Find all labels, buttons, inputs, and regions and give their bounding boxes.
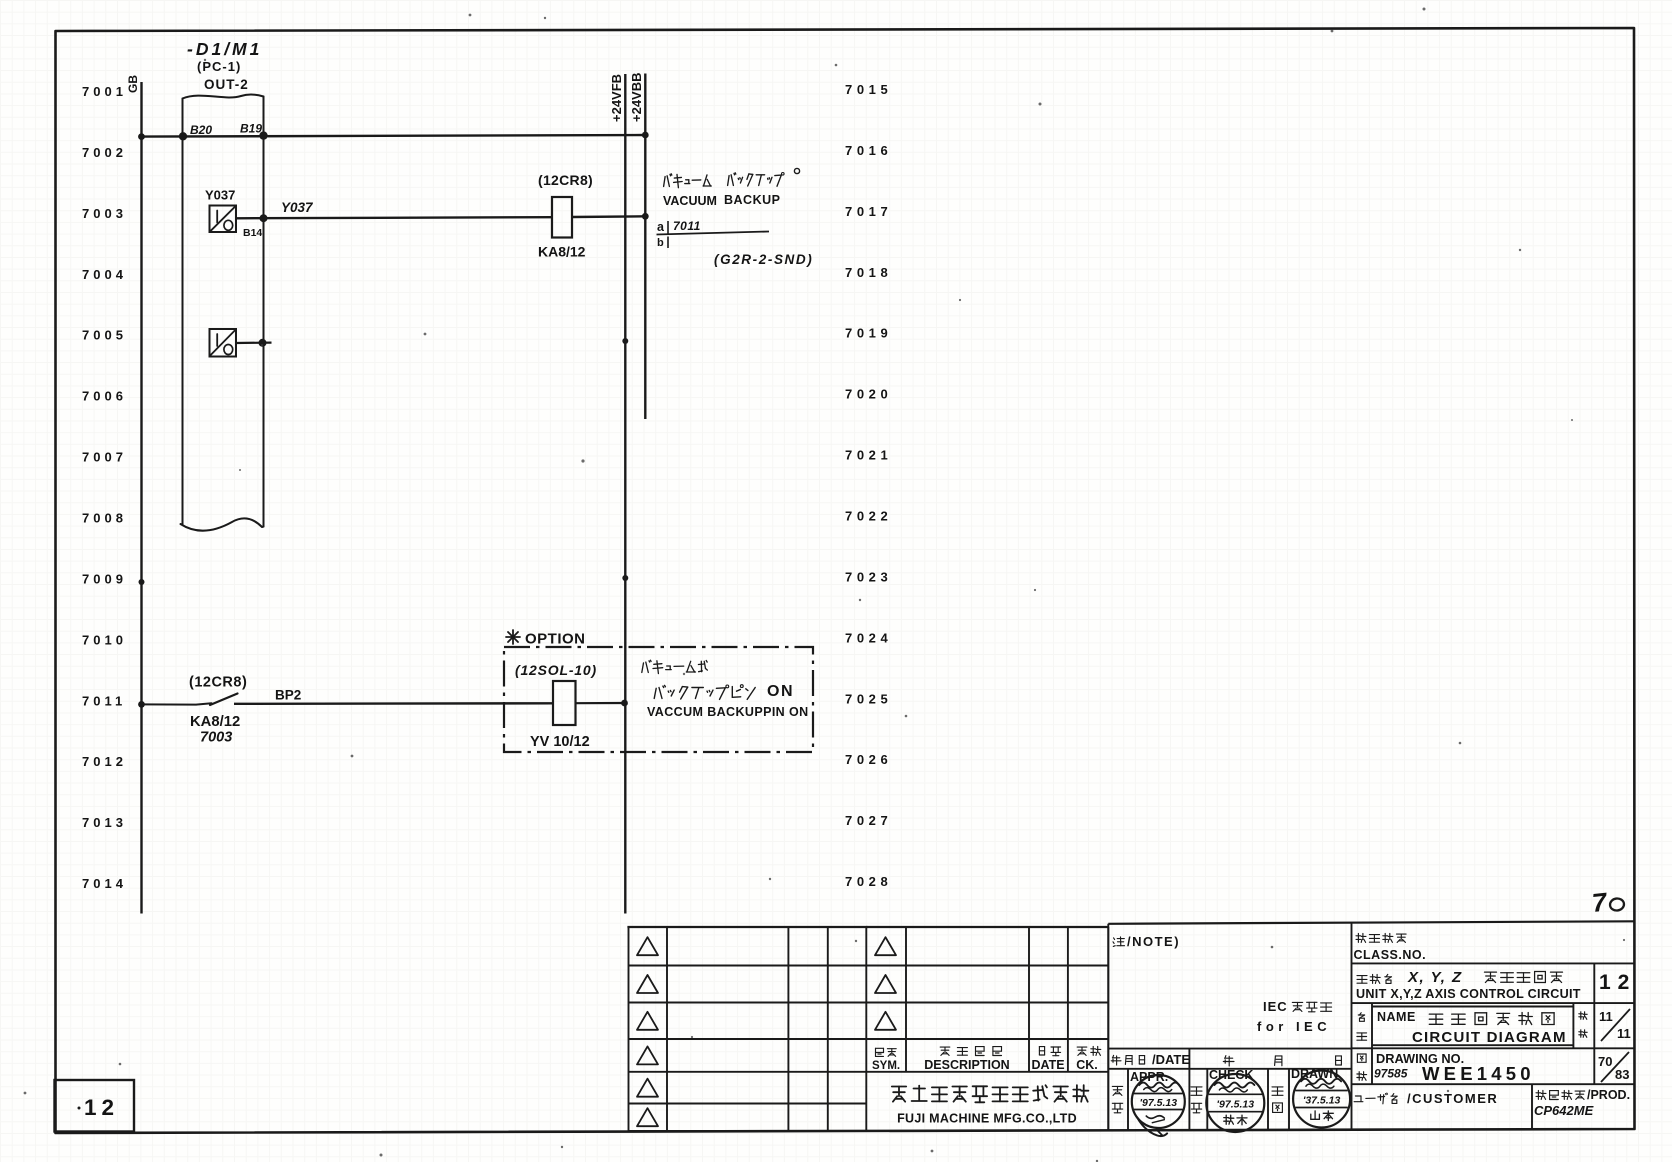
svg-text:7027: 7027: [845, 813, 892, 828]
svg-text:B14: B14: [243, 227, 262, 239]
svg-text:CLASS.NO.: CLASS.NO.: [1354, 948, 1427, 962]
svg-text:CIRCUIT DIAGRAM: CIRCUIT DIAGRAM: [1412, 1029, 1567, 1046]
svg-text:a: a: [657, 220, 665, 234]
label UNIT X Y Z AXIS CONTROL CIRCUIT: [1357, 975, 1367, 977]
wire rung 7003 Y037 to coil: [236, 217, 552, 218]
svg-text:DATE: DATE: [1031, 1058, 1064, 1072]
svg-text:Y037: Y037: [205, 188, 235, 203]
wire rung 7002 (GB to +24VBB): [142, 135, 646, 137]
svg-text:+24VBB: +24VBB: [629, 73, 644, 123]
approval stamp DRAWN Yamamoto 97.5.13: [1293, 1071, 1350, 1128]
annotation VACUUM BACKUP (katakana): [664, 177, 666, 187]
approval stamp APPR 97.5.13: [1132, 1075, 1185, 1128]
svg-text:7020: 7020: [845, 387, 892, 402]
revision header DATE: [1038, 1047, 1040, 1055]
junction on module edge at 7005: [259, 339, 267, 347]
wire coil to +24VBB: [572, 215, 645, 218]
svg-text:11: 11: [1617, 1026, 1631, 1041]
svg-text:'97.5.13: '97.5.13: [1217, 1099, 1255, 1111]
label PROD CP642ME: [1537, 1090, 1539, 1099]
approval row cells: [1127, 1069, 1129, 1130]
svg-text:(12CR8): (12CR8): [189, 675, 247, 691]
svg-text:FUJI MACHINE MFG.CO.,LTD: FUJI MACHINE MFG.CO.,LTD: [897, 1112, 1077, 1126]
svg-text:7017: 7017: [845, 204, 892, 219]
power rail +24VBB: [644, 74, 646, 420]
junction +24VFB at 7011: [621, 700, 628, 707]
revision header DESCRIPTION: [940, 1046, 950, 1048]
junction on GB rail at 7002: [138, 133, 145, 140]
svg-text:7014: 7014: [82, 876, 127, 891]
svg-text:7011: 7011: [673, 219, 701, 233]
sheet number box 12: [55, 1080, 135, 1132]
svg-text:7019: 7019: [845, 326, 892, 341]
svg-text:7023: 7023: [845, 569, 892, 584]
svg-text:VACUUM: VACUUM: [663, 194, 717, 208]
svg-text:7010: 7010: [82, 632, 127, 647]
svg-text:7008: 7008: [82, 511, 127, 526]
svg-text:12: 12: [84, 1095, 119, 1120]
label APPR: [1112, 1085, 1122, 1087]
svg-text:7002: 7002: [82, 145, 127, 160]
wire BP2 rung 7011: [234, 702, 553, 705]
PLC module -D1/M1 (PC-1) OUT-2: [182, 99, 184, 525]
svg-text:OUT-2: OUT-2: [204, 77, 249, 92]
svg-text:7021: 7021: [845, 448, 892, 463]
revision header CK: [1077, 1046, 1087, 1048]
svg-text:7009: 7009: [82, 571, 127, 586]
label OPTION with star: [506, 636, 520, 638]
junction dot GB rail (7009 level): [139, 579, 145, 585]
svg-text:CK.: CK.: [1076, 1058, 1098, 1072]
svg-text:12: 12: [1599, 971, 1636, 994]
svg-text:BP2: BP2: [275, 688, 301, 703]
svg-text:7016: 7016: [845, 143, 892, 158]
svg-text:7024: 7024: [845, 630, 892, 645]
svg-text:11: 11: [1599, 1009, 1613, 1024]
svg-text:KA8/12: KA8/12: [538, 244, 586, 260]
svg-text:DESCRIPTION: DESCRIPTION: [924, 1058, 1009, 1072]
svg-text:7012: 7012: [82, 754, 127, 769]
svg-text:7028: 7028: [845, 874, 892, 889]
wire rung 7011 from GB rail: [142, 703, 212, 704]
wire solenoid to +24VFB rail: [576, 702, 625, 704]
solenoid valve YV10/12 (12SOL-10): [553, 681, 576, 725]
svg-text:BACKUP: BACKUP: [724, 193, 780, 207]
relay coil KA8/12 (12CR8): [552, 197, 572, 238]
svg-text:/PROD.: /PROD.: [1587, 1088, 1630, 1102]
svg-text:7001: 7001: [82, 84, 127, 99]
svg-text:7022: 7022: [845, 509, 892, 524]
svg-text:OPTION: OPTION: [525, 631, 586, 648]
label NAME CIRCUIT DIAGRAM: [1360, 1013, 1362, 1015]
svg-text:7003: 7003: [82, 206, 127, 221]
page mini header: [1580, 1012, 1582, 1020]
annotation vacuum backup pin ON (katakana): [642, 663, 644, 673]
wire stub rung 7005: [236, 342, 272, 345]
svg-text:SYM.: SYM.: [872, 1060, 900, 1072]
junction dot +24VFB (7023 level): [622, 575, 628, 581]
power rail +24VFB: [624, 74, 626, 914]
svg-text:7011: 7011: [82, 693, 126, 708]
svg-text:/CUSTOMER: /CUSTOMER: [1407, 1091, 1498, 1106]
svg-text:97585: 97585: [1374, 1067, 1408, 1081]
revision header SYM: [875, 1048, 877, 1056]
label CLASS NO: [1357, 933, 1359, 942]
svg-text:7006: 7006: [82, 389, 127, 404]
svg-text:-D1/M1: -D1/M1: [187, 39, 262, 59]
svg-text:7003: 7003: [200, 730, 232, 746]
label NOTE: [1114, 938, 1115, 940]
svg-text:IEC: IEC: [1263, 999, 1288, 1014]
svg-text:7026: 7026: [845, 752, 892, 767]
svg-text:YV 10/12: YV 10/12: [530, 734, 590, 750]
svg-text:B20: B20: [190, 123, 212, 137]
junction B14 on module edge: [260, 214, 268, 222]
svg-text:ON: ON: [767, 683, 794, 700]
junction +24VBB at 7002: [642, 132, 649, 139]
svg-text:7018: 7018: [845, 265, 892, 280]
svg-text:for IEC: for IEC: [1257, 1019, 1331, 1034]
svg-text:'37.5.13: '37.5.13: [1303, 1095, 1341, 1107]
svg-text:X, Y, Z: X, Y, Z: [1407, 969, 1463, 986]
junction dot +24VFB (7019 level): [622, 338, 628, 344]
company box FUJI MACHINE MFG.CO.,LTD: [892, 1086, 906, 1088]
svg-text:/DATE: /DATE: [1152, 1052, 1190, 1067]
title block revision table 2 grid: [866, 926, 1108, 928]
svg-text:7013: 7013: [82, 815, 127, 830]
svg-text:KA8/12: KA8/12: [190, 714, 240, 730]
svg-text:(12SOL-10): (12SOL-10): [515, 662, 597, 678]
svg-text:7004: 7004: [82, 267, 127, 282]
svg-text:VACCUM BACKUPPIN ON: VACCUM BACKUPPIN ON: [647, 705, 809, 719]
junction GB rail at 7011: [138, 701, 145, 708]
label CHECK: [1191, 1086, 1202, 1088]
label CUSTOMER: [1355, 1095, 1361, 1097]
svg-text:Y037: Y037: [281, 200, 314, 215]
svg-text:/NOTE): /NOTE): [1127, 934, 1180, 949]
svg-text:DRAWN: DRAWN: [1291, 1067, 1338, 1081]
pin B20: [179, 132, 187, 140]
option enclosure (dashed): [504, 647, 813, 752]
info area grid: [1352, 962, 1635, 964]
revision table 1 triangles: [637, 937, 658, 955]
svg-text:+24VFB: +24VFB: [609, 74, 624, 122]
PLC output symbol Y037 (I/O box): [210, 206, 237, 233]
svg-text:7007: 7007: [82, 450, 127, 465]
junction +24VBB at 7003: [642, 213, 649, 220]
svg-text:(PC-1): (PC-1): [197, 59, 241, 74]
svg-text:7025: 7025: [845, 691, 892, 706]
svg-text:UNIT X,Y,Z AXIS CONTROL CIRCUI: UNIT X,Y,Z AXIS CONTROL CIRCUIT: [1356, 987, 1581, 1001]
svg-text:(G2R-2-SND): (G2R-2-SND): [714, 252, 813, 267]
power rail GB: [140, 82, 142, 914]
approval stamp CHECK Suzuki 97.5.13: [1206, 1074, 1264, 1132]
pin B19: [259, 131, 267, 139]
PLC output symbol I/O (rung 7005): [210, 329, 237, 357]
note area border: [1107, 924, 1109, 1130]
svg-text:WEE1450: WEE1450: [1422, 1063, 1535, 1084]
svg-text:CP642ME: CP642ME: [1534, 1103, 1594, 1118]
label DRAWING NO: [1357, 1053, 1366, 1055]
label DRAWN: [1272, 1086, 1283, 1088]
svg-text:(12CR8): (12CR8): [538, 172, 593, 188]
date header row: [1108, 1048, 1351, 1050]
svg-text:b: b: [657, 237, 664, 249]
relay contact KA8/12 (12CR8) rung 7011: [210, 694, 238, 706]
svg-text:7015: 7015: [845, 82, 892, 97]
svg-text:GB: GB: [126, 75, 140, 93]
svg-text:'97.5.13: '97.5.13: [1140, 1097, 1178, 1109]
title block revision table 1 grid: [629, 926, 867, 928]
revision table 2 triangles: [875, 937, 896, 955]
svg-text:NAME: NAME: [1377, 1010, 1416, 1024]
svg-text:B19: B19: [240, 122, 262, 136]
svg-text:70: 70: [1598, 1054, 1612, 1069]
svg-text:83: 83: [1615, 1067, 1629, 1082]
svg-text:7005: 7005: [82, 328, 127, 343]
